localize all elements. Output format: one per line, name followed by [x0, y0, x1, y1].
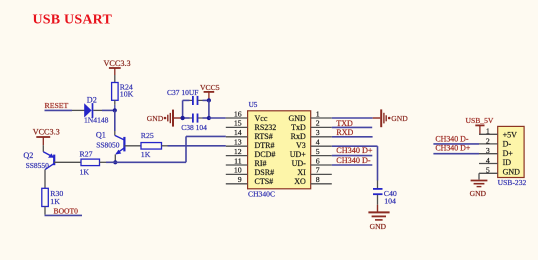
- svg-text:1K: 1K: [80, 167, 90, 176]
- svg-text:CH340C: CH340C: [248, 189, 275, 198]
- svg-text:USB-232: USB-232: [498, 178, 527, 187]
- svg-text:7: 7: [316, 166, 320, 175]
- svg-text:1: 1: [486, 127, 490, 136]
- svg-text:104: 104: [384, 196, 396, 205]
- svg-text:R25: R25: [141, 131, 154, 140]
- svg-text:SS8550: SS8550: [26, 161, 50, 170]
- svg-text:+5V: +5V: [503, 130, 518, 139]
- svg-text:10: 10: [234, 166, 242, 175]
- svg-text:CH340 D-: CH340 D-: [336, 156, 371, 165]
- svg-text:CH340 D+: CH340 D+: [435, 143, 470, 152]
- svg-text:C38 104: C38 104: [181, 123, 207, 132]
- svg-text:TXD: TXD: [336, 119, 353, 128]
- svg-text:U5: U5: [249, 101, 258, 109]
- svg-text:11: 11: [234, 156, 242, 165]
- svg-text:DSR#: DSR#: [255, 168, 275, 177]
- svg-text:14: 14: [234, 128, 242, 137]
- svg-text:5: 5: [316, 147, 320, 156]
- svg-text:USB_5V: USB_5V: [466, 116, 494, 125]
- svg-text:GND: GND: [370, 222, 387, 231]
- svg-text:1K: 1K: [50, 197, 60, 206]
- svg-text:UD+: UD+: [290, 150, 307, 159]
- svg-text:1N4148: 1N4148: [84, 116, 109, 125]
- svg-text:D+: D+: [503, 149, 514, 158]
- svg-text:9: 9: [238, 175, 242, 184]
- svg-text:XO: XO: [294, 177, 306, 186]
- svg-text:UD-: UD-: [292, 159, 307, 168]
- svg-text:XI: XI: [297, 168, 306, 177]
- svg-text:SS8050: SS8050: [96, 140, 120, 149]
- svg-text:RS232: RS232: [255, 123, 277, 132]
- svg-text:13: 13: [234, 138, 242, 147]
- svg-text:CTS#: CTS#: [255, 177, 274, 186]
- svg-text:V3: V3: [296, 141, 306, 150]
- svg-text:6: 6: [316, 156, 320, 165]
- svg-text:3: 3: [486, 146, 490, 155]
- svg-text:RTS#: RTS#: [255, 132, 273, 141]
- svg-text:1: 1: [316, 109, 320, 118]
- svg-text:RxD: RxD: [291, 132, 306, 141]
- svg-text:10K: 10K: [120, 90, 134, 99]
- svg-text:GND: GND: [470, 189, 487, 198]
- svg-text:4: 4: [316, 138, 320, 147]
- svg-text:GND: GND: [391, 114, 408, 123]
- svg-text:DCD#: DCD#: [255, 150, 276, 159]
- svg-text:3: 3: [316, 128, 320, 137]
- svg-text:RI#: RI#: [255, 159, 267, 168]
- svg-text:1K: 1K: [141, 150, 151, 159]
- svg-text:BOOT0: BOOT0: [54, 206, 79, 215]
- svg-text:5: 5: [486, 166, 490, 175]
- svg-text:GND: GND: [288, 114, 306, 123]
- svg-text:VCC3.3: VCC3.3: [33, 127, 60, 136]
- svg-text:Q1: Q1: [96, 131, 106, 140]
- svg-text:4: 4: [486, 156, 490, 165]
- svg-text:8: 8: [316, 175, 320, 184]
- svg-text:Vcc: Vcc: [255, 114, 268, 123]
- svg-text:16: 16: [234, 109, 242, 118]
- svg-text:R27: R27: [80, 150, 93, 159]
- svg-text:RESET: RESET: [45, 101, 69, 110]
- svg-text:2: 2: [316, 119, 320, 128]
- svg-text:15: 15: [234, 119, 242, 128]
- svg-text:GND: GND: [147, 114, 164, 123]
- svg-text:USB USART: USB USART: [33, 13, 113, 28]
- svg-text:VCC3.3: VCC3.3: [104, 59, 131, 68]
- svg-text:CH340 D+: CH340 D+: [336, 146, 373, 155]
- svg-text:D2: D2: [87, 96, 97, 105]
- svg-text:ID: ID: [503, 158, 512, 167]
- svg-text:Q2: Q2: [23, 151, 33, 160]
- svg-text:VCC5: VCC5: [200, 83, 220, 92]
- svg-text:CH340 D-: CH340 D-: [435, 135, 468, 144]
- svg-text:C37 10UF: C37 10UF: [167, 88, 198, 97]
- svg-text:2: 2: [486, 136, 490, 145]
- svg-text:TxD: TxD: [291, 123, 306, 132]
- svg-text:D-: D-: [503, 140, 512, 149]
- svg-text:RXD: RXD: [336, 128, 353, 137]
- svg-text:GND: GND: [503, 167, 521, 176]
- svg-text:DTR#: DTR#: [255, 141, 275, 150]
- svg-text:12: 12: [234, 147, 242, 156]
